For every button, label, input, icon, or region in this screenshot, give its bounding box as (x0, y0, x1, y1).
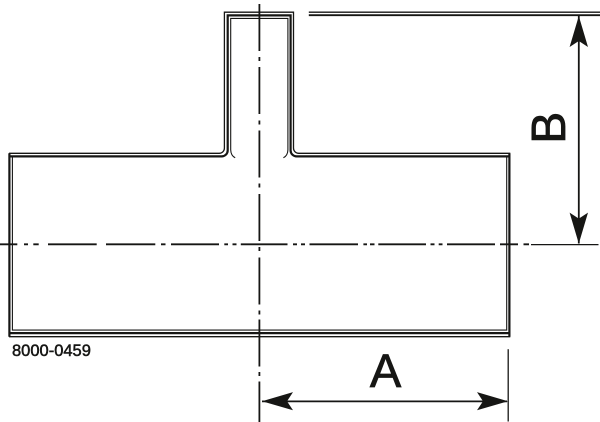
label A (370, 344, 402, 397)
vertical centerline (dash-dot) (258, 4, 260, 422)
part number 8000-0459 (12, 342, 91, 360)
svg-text:A: A (370, 344, 402, 397)
tee body bottom outer thin line (9, 336, 510, 338)
horizontal centerline (dash-dot) (0, 243, 529, 245)
dimension A right extension line (507, 349, 509, 421)
tee body right end face (508, 153, 510, 336)
dimension B bottom extension line (531, 244, 599, 246)
dimension A line (262, 400, 507, 402)
tee main contour: body top edge + branch outline (9, 15, 509, 156)
branch inner thin contour (231, 18, 288, 157)
svg-text:8000-0459: 8000-0459 (12, 342, 91, 360)
svg-text:B: B (523, 112, 576, 144)
label B (rotated) (523, 112, 576, 144)
tee inner thin contour (left, bottom, right) (12, 157, 506, 330)
arrowhead A left (262, 392, 293, 410)
dimension B extension line from branch top (thin+main) (309, 11, 600, 13)
tee outer thin contour: body top + branch (9, 12, 510, 153)
arrowhead B top (570, 16, 588, 47)
dimension B line (578, 16, 580, 244)
tee body bottom edge (9, 332, 509, 334)
arrowhead B bottom (570, 213, 588, 244)
tee body left end face (8, 153, 10, 336)
arrowhead A right (477, 392, 508, 410)
